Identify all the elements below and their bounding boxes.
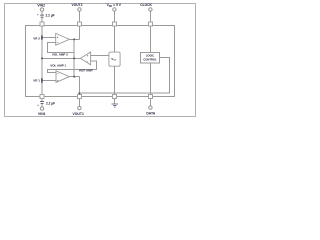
wire REF AMP output line to VR midpoint bbox=[42, 57, 80, 59]
wire VA1 output bbox=[69, 76, 79, 78]
svg-text:LOGIC: LOGIC bbox=[146, 54, 155, 58]
svg-text:VR 1: VR 1 bbox=[33, 79, 40, 83]
svg-text:+: + bbox=[57, 79, 59, 83]
svg-text:+: + bbox=[57, 35, 59, 39]
wire VIN1 pin to cap bbox=[41, 98, 43, 101]
wire VDD pin to Vref bbox=[113, 26, 115, 52]
terminal VIN1 bbox=[40, 107, 43, 110]
pin VOUT2 bbox=[77, 22, 81, 26]
wire VA1 output down to VOUT1 pin bbox=[78, 77, 80, 95]
op-amp REF AMP bbox=[80, 52, 90, 65]
terminal CLOCK bbox=[149, 8, 152, 11]
terminal VDD bbox=[113, 8, 116, 11]
wire cap to pin VIN2 bbox=[41, 18, 43, 22]
terminal circles bbox=[40, 8, 152, 111]
svg-text:VOL AMP 1: VOL AMP 1 bbox=[50, 63, 66, 67]
svg-text:2.2 µF: 2.2 µF bbox=[46, 13, 55, 17]
terminal DATA bbox=[149, 106, 152, 109]
wire VOUT2 terminal to pin bbox=[78, 11, 80, 22]
capacitor C2 2.2uF bbox=[37, 101, 55, 107]
pin VDD bbox=[112, 22, 116, 26]
wire VR1 to VIN1 pin bbox=[41, 83, 43, 95]
pin squares bbox=[40, 22, 152, 98]
svg-text:−: − bbox=[57, 72, 59, 76]
capacitor C1 2.2uF bbox=[37, 12, 55, 17]
wire CLOCK terminal to pin bbox=[149, 11, 151, 22]
block Vref bbox=[109, 52, 120, 66]
wire VDD terminal to pin bbox=[113, 11, 115, 22]
svg-text:VOUT2: VOUT2 bbox=[72, 3, 83, 7]
node REF line dot bbox=[73, 57, 75, 59]
wire VA2 output up to VOUT2 pin bbox=[78, 26, 80, 39]
pin CLOCK bbox=[148, 22, 152, 26]
ground bbox=[112, 104, 119, 107]
wire cap to VIN1 terminal bbox=[41, 104, 43, 107]
wire CLOCK pin to logic control bbox=[149, 26, 151, 53]
wire logic control right route to VOUT1 line bbox=[79, 57, 169, 93]
node VR midpoint dot bbox=[41, 57, 43, 59]
block LOGIC CONTROL bbox=[141, 53, 160, 64]
wire common vertical node bbox=[73, 39, 75, 76]
wire wiper 2 to VA2 bbox=[43, 37, 56, 39]
wire wiper 1 to VA1 bbox=[43, 80, 56, 82]
svg-text:VIN2: VIN2 bbox=[37, 3, 45, 7]
terminal VOUT2 bbox=[78, 8, 81, 11]
figure frame bbox=[5, 4, 196, 117]
svg-text:VOUT1: VOUT1 bbox=[73, 112, 84, 116]
node VA2 output dot bbox=[73, 38, 75, 40]
svg-text:REF AMP: REF AMP bbox=[79, 69, 92, 73]
pin DATA bbox=[148, 94, 152, 98]
pin VOUT1 bbox=[77, 94, 81, 98]
wire GND pin down bbox=[113, 98, 115, 104]
svg-text:CLOCK: CLOCK bbox=[140, 3, 152, 7]
svg-text:DATA: DATA bbox=[146, 111, 155, 115]
wire VA1 feedback loop and REF AMP lower loop bbox=[48, 61, 97, 73]
wire VIN2 terminal to cap bbox=[41, 11, 43, 15]
terminal VIN2 bbox=[40, 8, 43, 11]
wire VR string bbox=[41, 40, 43, 79]
node junction dot on VOUT1 line bbox=[78, 92, 80, 94]
pin VIN2 bbox=[40, 22, 44, 26]
resistor element VR2 bbox=[41, 35, 43, 39]
resistor element VR1 bbox=[41, 78, 43, 82]
op-amp VOL AMP 2 bbox=[56, 33, 70, 45]
wire logic control to DATA pin bbox=[149, 63, 151, 94]
wire VA2 feedback loop bbox=[48, 39, 75, 52]
svg-text:+: + bbox=[37, 12, 39, 16]
terminal VOUT1 bbox=[78, 106, 81, 109]
svg-text:−: − bbox=[57, 41, 59, 45]
wire VA2 output bbox=[69, 38, 79, 40]
wire DATA pin to terminal bbox=[149, 98, 151, 106]
svg-text:CONTROL: CONTROL bbox=[143, 58, 157, 62]
svg-text:VOL AMP 2: VOL AMP 2 bbox=[52, 52, 68, 56]
svg-text:2.2 µF: 2.2 µF bbox=[46, 101, 55, 105]
node VA1 output dot bbox=[73, 76, 75, 78]
pin GND bbox=[112, 94, 116, 98]
wire VOUT1 pin to terminal bbox=[78, 98, 80, 106]
wire REF AMP + input to Vref bbox=[91, 54, 109, 56]
svg-text:VR 2: VR 2 bbox=[33, 37, 40, 41]
IC outline box bbox=[26, 26, 175, 97]
wire VIN2 pin to VR2 bbox=[41, 26, 43, 35]
wires (axis-aligned, crisp) bbox=[42, 11, 169, 107]
wire Vref to GND pin bbox=[113, 66, 115, 94]
svg-text:+: + bbox=[37, 103, 39, 107]
svg-text:VIN1: VIN1 bbox=[38, 112, 46, 116]
op-amp VOL AMP 1 bbox=[56, 71, 69, 83]
pin VIN1 bbox=[40, 94, 44, 98]
